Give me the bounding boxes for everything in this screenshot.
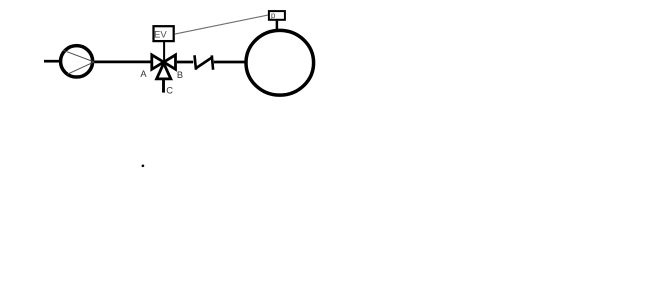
wire: valve B to break symbol — [177, 61, 193, 64]
pressure sensor box p — [269, 11, 285, 20]
wire: pump to valve port A — [94, 61, 151, 64]
vessel (large circle) — [246, 30, 314, 95]
svg-text:C: C — [166, 86, 173, 96]
valve bottom triangle (port C) — [157, 63, 171, 79]
valve left triangle (port A) — [152, 55, 164, 69]
signal line: EV box to pressure sensor p — [175, 15, 268, 34]
break symbol right tick — [212, 55, 213, 69]
break symbol left tick — [195, 55, 197, 69]
svg-text:A: A — [140, 69, 147, 79]
svg-text:B: B — [177, 70, 183, 80]
break symbol diagonal — [196, 58, 212, 69]
EV actuator box — [154, 26, 174, 41]
valve right triangle (port B) — [164, 55, 176, 69]
pump vane line upper — [63, 50, 94, 62]
node dot — [142, 164, 145, 167]
wire: vessel to pressure sensor box — [276, 21, 279, 30]
svg-text:p: p — [271, 11, 276, 20]
pump P1 (circle with open vane triangle) — [61, 46, 93, 77]
wire: inlet stub left of pump — [44, 60, 60, 63]
wire: break symbol to vessel — [214, 61, 246, 64]
pump vane line lower — [68, 62, 95, 74]
wire: valve to EV actuator box — [163, 42, 165, 62]
svg-text:EV: EV — [154, 29, 167, 40]
wire: valve port C stub — [162, 79, 165, 93]
